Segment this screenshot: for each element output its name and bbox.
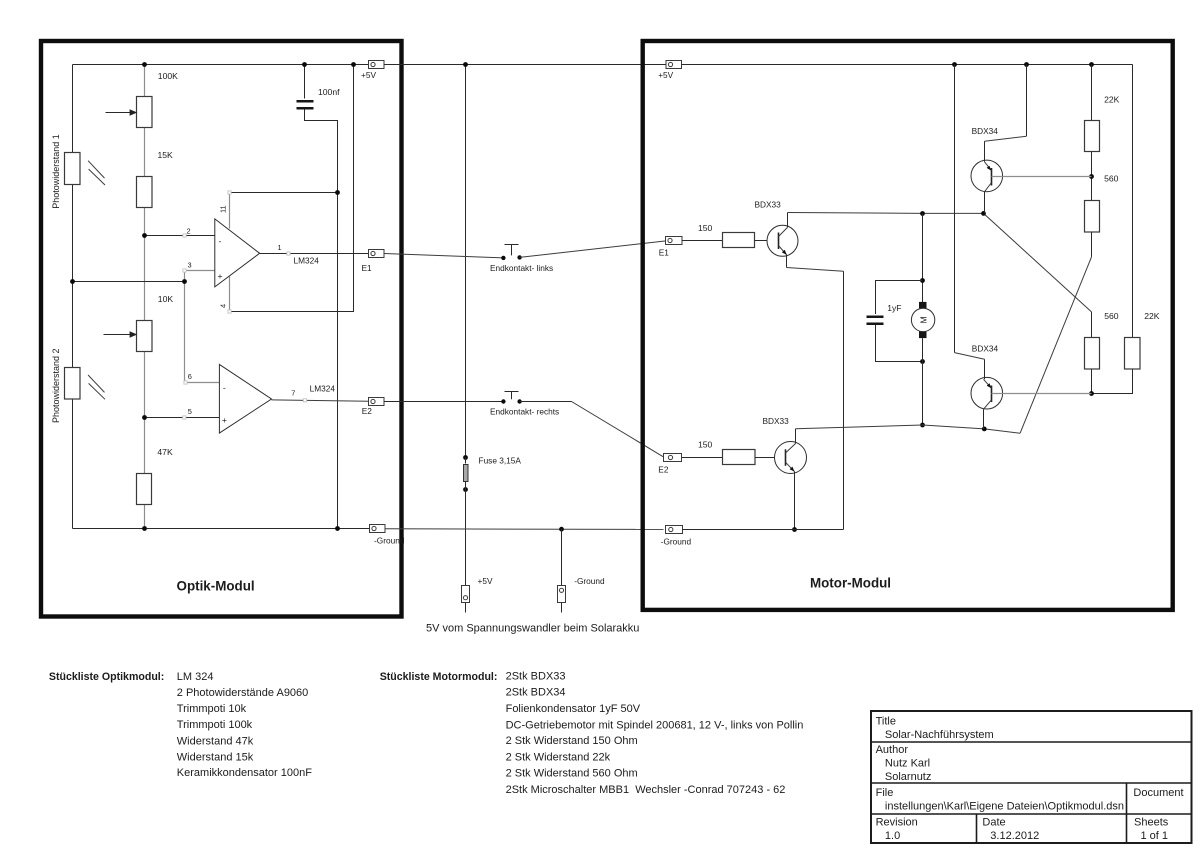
wire to -Ground bottom port — [561, 529, 563, 585]
junction Q2 base node — [1089, 174, 1094, 179]
pin square pin11 — [228, 191, 231, 194]
svg-text:M: M — [918, 316, 928, 323]
motor M body — [911, 308, 934, 331]
photoresistor Photowiderstand 2 — [65, 368, 81, 400]
junction cap bottom / motor bottom — [920, 359, 925, 364]
svg-text:Author: Author — [876, 744, 909, 756]
junction top rail / chain — [142, 62, 147, 67]
svg-text:E1: E1 — [659, 248, 670, 258]
title block column Document — [1126, 783, 1128, 843]
pin square pin1 — [287, 252, 290, 255]
svg-text:15K: 15K — [158, 150, 174, 160]
svg-text:File: File — [876, 787, 894, 799]
capacitor 1yF plates — [867, 316, 884, 319]
svg-text:2Stk BDX34: 2Stk BDX34 — [506, 687, 566, 699]
motor M terminals — [919, 302, 927, 308]
resistor 150 (lower) — [723, 450, 756, 465]
junction ground line / pin11 — [335, 190, 340, 195]
svg-text:Keramikkondensator 100nF: Keramikkondensator 100nF — [177, 767, 312, 779]
title block row line 1 — [871, 741, 1192, 743]
wire 150 to Q1 base — [755, 240, 779, 242]
svg-text:2 Stk Widerstand 150 Ohm: 2 Stk Widerstand 150 Ohm — [506, 735, 638, 747]
svg-text:Photowiderstand 2: Photowiderstand 2 — [51, 348, 61, 423]
op-amp U1B triangle — [219, 364, 271, 433]
wire ground rail (Motor) — [683, 529, 844, 531]
wire Q1 collector to motor top node — [787, 213, 789, 228]
port E2 (Optik) — [369, 398, 385, 406]
wire capacitor to ground line — [305, 110, 338, 529]
photoresistor Photowiderstand 1 — [65, 153, 81, 185]
svg-text:Nutz Karl: Nutz Karl — [885, 758, 930, 770]
wire motor bottom vertical — [922, 338, 924, 425]
svg-text:instellungen\Karl\Eigene Datei: instellungen\Karl\Eigene Dateien\Optikmo… — [885, 801, 1124, 813]
wire pin 6 net — [185, 282, 220, 383]
svg-text:150: 150 — [698, 440, 713, 450]
wire pin 3 net — [73, 281, 185, 283]
wire +5V top rail (Optik) — [73, 64, 369, 66]
svg-text:LM 324: LM 324 — [177, 671, 214, 683]
svg-text:Optik-Modul: Optik-Modul — [177, 579, 255, 594]
svg-text:2 Stk Widerstand 22k: 2 Stk Widerstand 22k — [506, 752, 611, 764]
svg-text:Motor-Modul: Motor-Modul — [810, 576, 891, 591]
pin square pin6 — [184, 381, 187, 384]
svg-text:47K: 47K — [157, 447, 173, 457]
light rays Photowiderstand 1 — [88, 161, 104, 178]
wire Q5 collector stub — [795, 429, 797, 444]
svg-text:Stückliste Optikmodul:: Stückliste Optikmodul: — [49, 671, 164, 683]
wire cross link motor top node to 560 lower — [984, 213, 1092, 312]
junction top rail / cap — [302, 62, 307, 67]
wire Q4 base to divider — [992, 393, 1092, 395]
junction chain / pin5 — [142, 415, 147, 420]
svg-text:+5V: +5V — [361, 70, 376, 80]
port E1 (Motor) — [666, 237, 683, 245]
junction motor bottom / collector link — [920, 423, 925, 428]
wire 560 lower bottom lead — [1091, 369, 1093, 394]
svg-text:LM324: LM324 — [294, 256, 320, 266]
svg-text:1 of 1: 1 of 1 — [1141, 830, 1169, 842]
wire E1 port to 150 resistor — [682, 240, 723, 242]
junction Q4 collector / motor bottom — [982, 427, 987, 432]
wire ground rail between modules — [385, 528, 664, 531]
svg-text:100K: 100K — [158, 71, 178, 81]
svg-text:2Stk Microschalter MBB1 Wechs: 2Stk Microschalter MBB1 Wechsler -Conrad… — [506, 784, 786, 796]
svg-text:Endkontakt- rechts: Endkontakt- rechts — [490, 407, 559, 417]
svg-text:-: - — [223, 383, 226, 393]
fuse Fuse 3,15A body — [464, 465, 469, 482]
svg-text:-Ground: -Ground — [374, 536, 405, 546]
junction ground rail / ground line — [335, 526, 340, 531]
resistor 560 (upper) — [1085, 201, 1100, 233]
svg-text:7: 7 — [291, 388, 295, 397]
wire cross link 560 to motor bottom node — [1020, 257, 1091, 433]
pin square pin3 — [183, 269, 186, 272]
svg-text:+5V: +5V — [478, 576, 493, 586]
svg-text:E1: E1 — [362, 263, 373, 273]
junction ground rail / -Ground bottom — [559, 527, 564, 532]
title block row line 3 — [871, 813, 1192, 815]
svg-text:BDX33: BDX33 — [763, 416, 790, 426]
pin square pin2 — [183, 234, 186, 237]
junction fuse bottom — [463, 487, 468, 492]
wire E1 Optik to switch — [384, 254, 503, 258]
transistor Q5 BDX33 (lower) — [775, 442, 807, 474]
capacitor 100nf plates — [297, 100, 314, 103]
wire pin 1 output to E1 — [260, 253, 369, 255]
junction left branch / pin3 — [70, 279, 75, 284]
junction fuse top — [463, 455, 468, 460]
wire pin 7 output to E2 — [272, 400, 369, 401]
pin 4 stub — [229, 277, 231, 312]
wire left photoresistor branch — [72, 65, 74, 529]
svg-text:22K: 22K — [1104, 95, 1120, 105]
wire E2 Optik to switch — [384, 401, 503, 403]
svg-text:Trimmpoti 100k: Trimmpoti 100k — [177, 719, 253, 731]
svg-text:4: 4 — [219, 304, 228, 308]
wire ground rail (Optik) — [73, 528, 370, 530]
transistor Q2 BDX34 (upper) — [971, 160, 1003, 192]
svg-text:Date: Date — [982, 817, 1005, 829]
wiper arrow poti 100k — [106, 112, 135, 114]
svg-text:100nf: 100nf — [318, 87, 340, 97]
op-amp U1A triangle — [215, 219, 260, 287]
svg-text:-Ground: -Ground — [661, 537, 692, 547]
junction pin3 / pin6 — [182, 279, 187, 284]
svg-text:11: 11 — [219, 205, 228, 213]
Optik-Modul enclosure — [41, 41, 402, 617]
Motor-Modul enclosure — [643, 41, 1173, 610]
resistor 560 (lower) — [1085, 338, 1100, 370]
wire E2 port to 150 resistor — [682, 457, 723, 459]
svg-text:BDX34: BDX34 — [972, 344, 999, 354]
wire resistor divider chain — [144, 65, 146, 529]
svg-text:Fuse 3,15A: Fuse 3,15A — [479, 456, 522, 466]
wire switch to E1 (Motor) — [520, 241, 666, 258]
pin square pin4 — [228, 310, 231, 313]
port E2 (Motor) — [664, 454, 682, 462]
wire bottom collector link — [796, 425, 923, 429]
resistor 47K — [137, 474, 152, 505]
wire pin 2 net — [145, 235, 215, 237]
svg-text:BDX34: BDX34 — [972, 126, 999, 136]
wire fuse to +5V bottom port — [465, 458, 467, 464]
junction chain / pin2 — [142, 233, 147, 238]
svg-text:2 Photowiderstände A9060: 2 Photowiderstände A9060 — [177, 687, 308, 699]
trimmer potentiometer 10k — [137, 321, 153, 352]
svg-text:1.0: 1.0 — [885, 830, 900, 842]
svg-text:5: 5 — [188, 407, 192, 416]
svg-text:3: 3 — [188, 261, 192, 270]
transistor Q1 BDX33 (upper) — [767, 225, 798, 256]
wire Q5 emitter to ground rail — [794, 471, 796, 529]
pin square pin7 — [303, 399, 306, 402]
trimmer potentiometer 100k — [137, 97, 153, 128]
wire Q1 emitter down to ground — [786, 255, 788, 268]
wire 22K upper top lead — [1091, 65, 1093, 121]
svg-text:Widerstand 15k: Widerstand 15k — [177, 751, 254, 763]
port -Ground (Motor) — [666, 526, 683, 534]
svg-text:Widerstand 47k: Widerstand 47k — [177, 736, 254, 748]
port -Ground (bottom) — [558, 586, 566, 603]
wire +5V rail (Motor) — [682, 64, 1133, 66]
junction rail / 22K branch — [1089, 62, 1094, 67]
junction ground rail / Q5 emitter — [792, 527, 797, 532]
junction top rail / pin4 net — [351, 62, 356, 67]
svg-text:Document: Document — [1133, 787, 1183, 799]
resistor 150 (upper) — [723, 233, 755, 248]
title block column Date — [976, 814, 978, 843]
svg-text:BDX33: BDX33 — [755, 200, 782, 210]
wire +5V middle vertical — [465, 65, 467, 458]
junction motor / cap top — [920, 278, 925, 283]
wiper arrow poti 10k — [104, 334, 135, 336]
port +5V (Motor) — [666, 61, 682, 69]
junction ground rail / chain — [142, 526, 147, 531]
svg-text:E2: E2 — [362, 406, 373, 416]
svg-text:Trimmpoti 10k: Trimmpoti 10k — [177, 703, 247, 715]
pin 3 stub — [185, 271, 215, 282]
wire capacitor 1yF bottom lead — [876, 325, 923, 362]
svg-text:E2: E2 — [658, 465, 669, 475]
svg-text:DC-Getriebemotor mit Spindel 2: DC-Getriebemotor mit Spindel 200681, 12 … — [506, 719, 804, 731]
switch Endkontakt-links actuator — [511, 245, 513, 256]
wire switch to E2 (Motor) — [520, 401, 572, 403]
junction motor top branch — [920, 211, 925, 216]
svg-text:5V vom Spannungswandler beim S: 5V vom Spannungswandler beim Solarakku — [426, 623, 639, 635]
svg-text:6: 6 — [188, 372, 192, 381]
port -Ground (Optik) — [370, 525, 386, 533]
wire Q4 collector to motor bottom node — [983, 409, 985, 429]
svg-text:-: - — [219, 236, 222, 246]
pin square pin5 — [183, 416, 186, 419]
svg-text:3.12.2012: 3.12.2012 — [990, 830, 1039, 842]
svg-text:1yF: 1yF — [887, 303, 901, 313]
switch Endkontakt-links contacts — [501, 256, 505, 260]
wire 22K to 560 junction — [1091, 152, 1093, 201]
svg-text:1: 1 — [278, 243, 282, 252]
wire capacitor 1yF top lead — [876, 281, 923, 315]
wire 150 to Q5 base — [755, 457, 786, 459]
resistor 22K (lower) — [1125, 338, 1141, 370]
port E1 (Optik) — [369, 250, 385, 258]
svg-text:+: + — [218, 271, 223, 281]
wire op-amp pin 11 net — [230, 192, 338, 194]
svg-text:+: + — [222, 415, 227, 425]
junction Q4 base node — [1089, 391, 1094, 396]
svg-text:2 Stk Widerstand 560 Ohm: 2 Stk Widerstand 560 Ohm — [506, 768, 638, 780]
svg-text:Endkontakt- links: Endkontakt- links — [490, 263, 553, 273]
wire Q4 emitter to +5V — [954, 65, 956, 353]
wire +5V rail between modules — [384, 64, 666, 66]
wire op-amp pin 4 net to +5V — [230, 65, 354, 312]
wire Q2 emitter to +5V — [1026, 65, 1028, 137]
junction rail / Q2 emitter branch — [1024, 62, 1029, 67]
svg-text:560: 560 — [1104, 311, 1119, 321]
svg-text:2Stk BDX33: 2Stk BDX33 — [506, 670, 566, 682]
transistor Q4 BDX34 (lower) — [971, 377, 1003, 409]
svg-text:2: 2 — [187, 227, 191, 236]
port +5V (Optik) — [369, 61, 385, 69]
svg-text:Title: Title — [876, 716, 896, 728]
wire pin 5 net — [145, 417, 220, 419]
title block frame — [871, 711, 1192, 843]
stub below -Ground port — [561, 603, 563, 613]
junction +5V rail / middle vertical — [463, 62, 468, 67]
svg-text:22K: 22K — [1144, 311, 1160, 321]
svg-text:150: 150 — [698, 223, 713, 233]
title block row line 2 — [871, 782, 1192, 784]
wire 22K lower bottom lead — [1092, 369, 1133, 394]
svg-text:Solarnutz: Solarnutz — [885, 771, 931, 783]
svg-text:10K: 10K — [158, 294, 174, 304]
wire 560 upper bottom lead — [1091, 232, 1093, 257]
svg-text:+5V: +5V — [658, 70, 673, 80]
wire motor top vertical — [922, 214, 924, 303]
svg-text:Solar-Nachführsystem: Solar-Nachführsystem — [885, 729, 994, 741]
junction Q2 collector / motor top — [981, 211, 986, 216]
stub below +5V port — [465, 603, 467, 613]
resistor 15K — [137, 177, 153, 208]
switch Endkontakt-rechts contacts — [501, 399, 505, 403]
svg-text:Photowiderstand 1: Photowiderstand 1 — [51, 134, 61, 209]
svg-text:Stückliste Motormodul:: Stückliste Motormodul: — [380, 671, 498, 683]
junction rail / Q3 emitter branch — [952, 62, 957, 67]
switch Endkontakt-rechts actuator — [511, 392, 513, 400]
light rays Photowiderstand 2 — [88, 375, 104, 392]
wire Q2 base to divider — [992, 176, 1092, 178]
pin 11 stub — [229, 193, 231, 229]
svg-text:Sheets: Sheets — [1134, 817, 1169, 829]
svg-text:Revision: Revision — [876, 817, 918, 829]
resistor 22K (upper) — [1085, 121, 1100, 152]
port +5V (bottom) — [462, 586, 470, 603]
svg-text:-Ground: -Ground — [574, 576, 605, 586]
capacitor 100nf top lead — [304, 65, 306, 99]
svg-text:Folienkondensator 1yF 50V: Folienkondensator 1yF 50V — [506, 703, 641, 715]
wire Q2 collector to motor top node — [984, 192, 986, 214]
svg-text:560: 560 — [1104, 174, 1119, 184]
svg-text:LM324: LM324 — [310, 383, 336, 393]
